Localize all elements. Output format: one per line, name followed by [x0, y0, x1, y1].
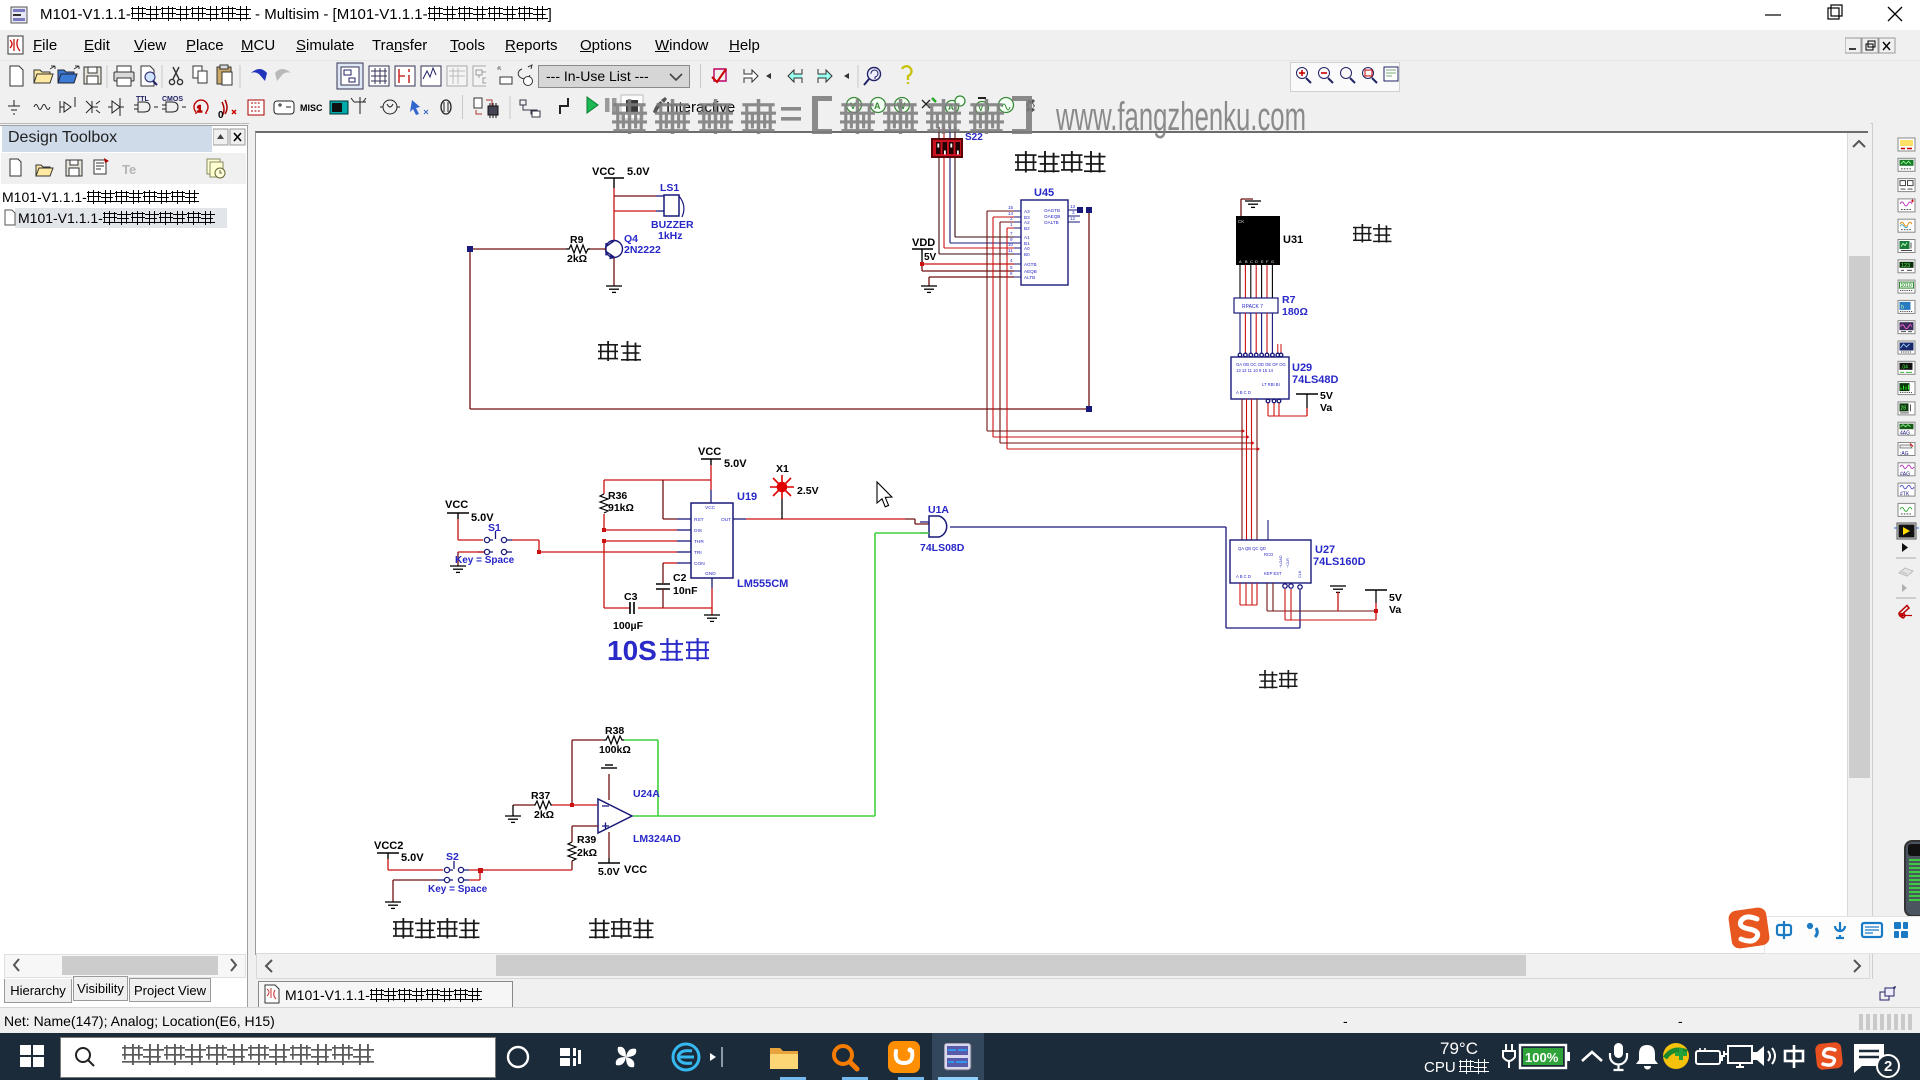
counter U27 74LS160D: [1230, 540, 1311, 583]
svg-text:MISC: MISC: [300, 103, 323, 113]
switch S1: [447, 513, 469, 519]
section label 数值检测: [1015, 151, 1106, 173]
wire THR: [604, 540, 677, 542]
sogou S: [1814, 1041, 1846, 1073]
svg-text:28: 28: [1901, 405, 1907, 411]
cut: [173, 67, 179, 79]
bus lines: [987, 431, 1257, 449]
UC: [888, 1041, 924, 1073]
svg-text:4AG: 4AG: [1900, 431, 1910, 437]
in-use list: [492, 61, 538, 92]
monitor: [1722, 1043, 1756, 1071]
GND pin wire + ground: [711, 578, 713, 588]
ground (U27): [1330, 586, 1346, 592]
resistor R36: [603, 480, 605, 530]
svg-text:b: b: [1901, 304, 1904, 310]
U29 bottom to U27 top wires: [1242, 399, 1268, 540]
probe icons: [840, 92, 1040, 123]
comparator U45: [1021, 200, 1068, 285]
decoder U29 74LS48D: [1238, 353, 1283, 357]
中: [1782, 1043, 1810, 1071]
svg-text:CMOS: CMOS: [162, 96, 183, 103]
svg-text:W: W: [897, 101, 906, 111]
section label 显示: [1353, 224, 1392, 243]
svg-text:A: A: [874, 101, 881, 111]
ground (U45): [929, 276, 1014, 278]
taskbar: [0, 1033, 1920, 1080]
search box: [60, 1037, 496, 1078]
section label 计数: [1259, 670, 1298, 689]
save: [84, 67, 101, 84]
svg-text:A: A: [948, 103, 954, 112]
canvas horizontal scrollbar: [256, 953, 1870, 979]
display U31: [1236, 216, 1280, 265]
opamp bottom power VCC: [608, 832, 610, 858]
green slider bottom right: [1904, 840, 1920, 917]
resistor R37: [513, 804, 534, 806]
green wire from opamp: [875, 532, 929, 534]
orange search: [830, 1042, 864, 1072]
5V Va (U27): [1365, 589, 1387, 591]
wire TRI from S1: [539, 551, 677, 553]
open blue: [58, 70, 77, 83]
svg-text:1: 1: [197, 104, 202, 114]
buzzer LS1: [651, 182, 694, 242]
plus input + resistor R39: [572, 826, 598, 842]
task view: [558, 1044, 588, 1070]
svg-text:TTL: TTL: [136, 96, 150, 103]
MDI child window buttons: [1845, 36, 1915, 56]
resistor R9: [588, 248, 606, 250]
svg-text:123: 123: [1901, 263, 1910, 269]
section label 报警: [598, 341, 641, 361]
switch S2: [377, 853, 399, 859]
battery2: [1692, 1045, 1726, 1069]
message: [1850, 1040, 1910, 1078]
svg-text:Te: Te: [122, 162, 136, 177]
ground (U31): [1241, 199, 1253, 216]
temperature: [1440, 1039, 1478, 1059]
Design Toolbox panel: [0, 125, 248, 1009]
DIP switch S22: [932, 139, 962, 157]
power VCC (buzzer): [604, 178, 624, 188]
lamp X1: [770, 475, 794, 499]
svg-text:V: V: [978, 104, 984, 113]
start: [20, 1045, 46, 1069]
chip U19 LM555CM: [691, 503, 733, 578]
mouse cursor: [877, 482, 892, 507]
right instruments toolbar: [1872, 123, 1920, 1007]
wire top rail: [604, 479, 711, 481]
right toolbar icons: [1892, 125, 1920, 1005]
wires display to R7: [1240, 265, 1272, 298]
svg-text:#AG: #AG: [1900, 471, 1910, 477]
canvas vertical scrollbar: [1847, 133, 1871, 953]
redo: [275, 69, 291, 81]
bus risers to U45: [987, 211, 1014, 449]
wires above/below DIP switch: [939, 127, 1014, 254]
resistor pack R7: [1234, 298, 1278, 313]
sogou language bar: [1764, 916, 1920, 954]
wire buzzer bottom: [613, 196, 615, 240]
svg-text::AG: :AG: [1900, 451, 1909, 457]
U1A output wire to CLK: [950, 527, 1300, 628]
resistor R38: [572, 739, 604, 741]
svg-text:V: V: [850, 101, 856, 111]
wire S2 to R39: [480, 869, 572, 871]
speaker: [1748, 1043, 1782, 1071]
app icon: [10, 6, 28, 24]
status bar: [0, 1007, 1920, 1034]
canvas background: [249, 123, 1871, 1007]
green plus circle: [1662, 1042, 1694, 1072]
ground (R37): [512, 805, 514, 816]
svg-text:0: 0: [218, 110, 224, 121]
folder: [768, 1042, 804, 1072]
wire VCC to buzzer: [613, 188, 615, 196]
simulation controls: [580, 92, 760, 123]
wires R7 to U29: [1240, 313, 1272, 353]
wire CON + capacitor C2: [663, 562, 677, 564]
copy: [193, 66, 202, 78]
svg-text:2: 2: [1884, 1058, 1892, 1075]
section label 振动输入: [393, 918, 480, 939]
open: [34, 70, 53, 83]
left rail down + bottom rail + capacitor C3: [604, 541, 712, 608]
plug + battery: [1498, 1042, 1578, 1072]
section label 放大器: [589, 918, 654, 939]
svg-text:.04: .04: [1901, 364, 1908, 370]
power VCC (555): [701, 459, 721, 465]
panel horizontal scrollbar: [4, 954, 246, 978]
paste: [217, 67, 231, 84]
IE: [670, 1041, 730, 1073]
new: [10, 66, 23, 86]
window buttons: [1740, 0, 1920, 30]
preview: [141, 66, 154, 86]
emitter wire + ground: [613, 258, 615, 286]
svg-text:#TK: #TK: [1900, 492, 1910, 498]
multisim active: [932, 1033, 984, 1080]
opamp top power + ground flag: [608, 774, 610, 800]
print: [114, 72, 134, 81]
5V Va (U29): [1266, 399, 1281, 403]
wire RST: [663, 480, 677, 519]
power VDD: [912, 249, 933, 255]
panel tabs: [4, 979, 72, 1003]
bell: [1634, 1042, 1662, 1072]
U27 bottom wiring: [1240, 583, 1376, 620]
svg-text:100%: 100%: [1525, 1050, 1559, 1065]
mic: [1604, 1041, 1632, 1073]
wire DIS: [604, 529, 677, 531]
OUT wire: [733, 518, 746, 520]
svg-text:1010: 1010: [1901, 283, 1912, 289]
watermark: [612, 95, 1306, 139]
cortana: [505, 1044, 533, 1070]
window/view buttons group: [336, 61, 486, 92]
op-amp U24A: [598, 799, 632, 833]
zoom toolbar: [1290, 62, 1400, 92]
transistor Q4: [606, 241, 623, 259]
document tab row: [249, 979, 1920, 1007]
pinwheel app: [610, 1041, 644, 1073]
undo: [251, 69, 267, 81]
feedback wire: [571, 740, 573, 805]
node: alarm loop wire: [470, 210, 1089, 409]
